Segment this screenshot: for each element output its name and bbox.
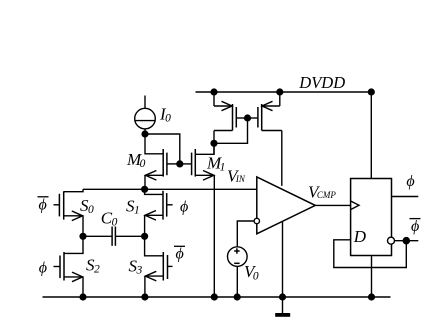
svg-text:ϕ: ϕ xyxy=(176,245,184,262)
switch S0 xyxy=(54,189,84,236)
svg-text:ϕ: ϕ xyxy=(411,218,419,235)
node PMOS left drain / M1 drain xyxy=(210,140,217,147)
svg-text:ϕ: ϕ xyxy=(39,196,47,213)
latch U1 (D flip-flop) xyxy=(351,179,392,256)
node C0 right xyxy=(141,233,148,240)
wire DVDD to latch top xyxy=(370,92,372,179)
op-amp comparator xyxy=(254,177,351,297)
net ground rail xyxy=(43,296,391,298)
node C0 left xyxy=(79,233,86,240)
wire feedback Qbar to D input xyxy=(334,240,407,268)
node feedback junction xyxy=(403,237,411,245)
node S2 source / rail xyxy=(79,293,86,300)
wire PMOS gates to left drain xyxy=(214,118,248,143)
label phi-bar (S3 gate) xyxy=(174,245,185,262)
node M1 source / rail xyxy=(211,293,218,300)
svg-text:ϕ: ϕ xyxy=(406,173,414,190)
node V0 / rail xyxy=(234,293,241,300)
node latch / ground rail xyxy=(368,293,375,300)
svg-text:M0: M0 xyxy=(126,150,146,170)
transistor M1 xyxy=(180,143,215,297)
transistor M0 xyxy=(145,134,180,189)
svg-text:VCMP: VCMP xyxy=(308,182,336,201)
node S3 source / rail xyxy=(141,293,148,300)
wire I0 to M0/M1 gates xyxy=(145,134,180,164)
svg-text:M1: M1 xyxy=(206,154,225,174)
node dvdd-right junction xyxy=(276,88,283,95)
net DVDD rail xyxy=(196,91,372,93)
current source I0 xyxy=(135,96,156,135)
svg-text:S2: S2 xyxy=(86,256,100,276)
svg-text:C0: C0 xyxy=(101,208,118,228)
svg-text:D: D xyxy=(353,227,367,246)
label phi-bar (Qbar output) xyxy=(410,218,421,235)
label phi-bar (S0 gate) xyxy=(38,196,49,213)
svg-text:S1: S1 xyxy=(126,197,140,217)
switch S1 xyxy=(145,189,173,236)
svg-text:S3: S3 xyxy=(129,257,143,277)
svg-text:ϕ: ϕ xyxy=(180,198,188,215)
node rail junction xyxy=(141,186,148,193)
switch S2 xyxy=(54,236,84,297)
Qbar bubble xyxy=(388,237,395,244)
switch S3 xyxy=(145,236,173,297)
wire latch bottom to ground rail xyxy=(371,256,373,298)
capacitor C0 xyxy=(83,227,145,246)
svg-text:I0: I0 xyxy=(159,105,171,125)
node dvdd-left junction xyxy=(210,88,217,95)
wire input rail (M0 source / S0 S1 drains to comparator +) xyxy=(83,188,257,190)
node comparator / rail xyxy=(279,293,286,300)
node PMOS gate tie xyxy=(244,114,251,121)
svg-text:S0: S0 xyxy=(80,196,94,216)
svg-text:VIN: VIN xyxy=(227,167,246,186)
transistor PMOS right xyxy=(248,92,282,186)
svg-text:ϕ: ϕ xyxy=(39,259,47,276)
ground xyxy=(275,297,290,317)
node M0/M1 gate tie xyxy=(176,160,183,167)
transistor PMOS left (mirror) xyxy=(214,92,248,154)
wire Qbar output phi-bar xyxy=(395,240,419,242)
svg-text:V0: V0 xyxy=(244,262,259,283)
node dvdd-latch junction xyxy=(368,88,375,95)
svg-text:DVDD: DVDD xyxy=(298,73,345,92)
node I0 bottom xyxy=(141,130,148,137)
voltage source V0 xyxy=(228,221,255,297)
wire Q output phi xyxy=(392,196,419,198)
